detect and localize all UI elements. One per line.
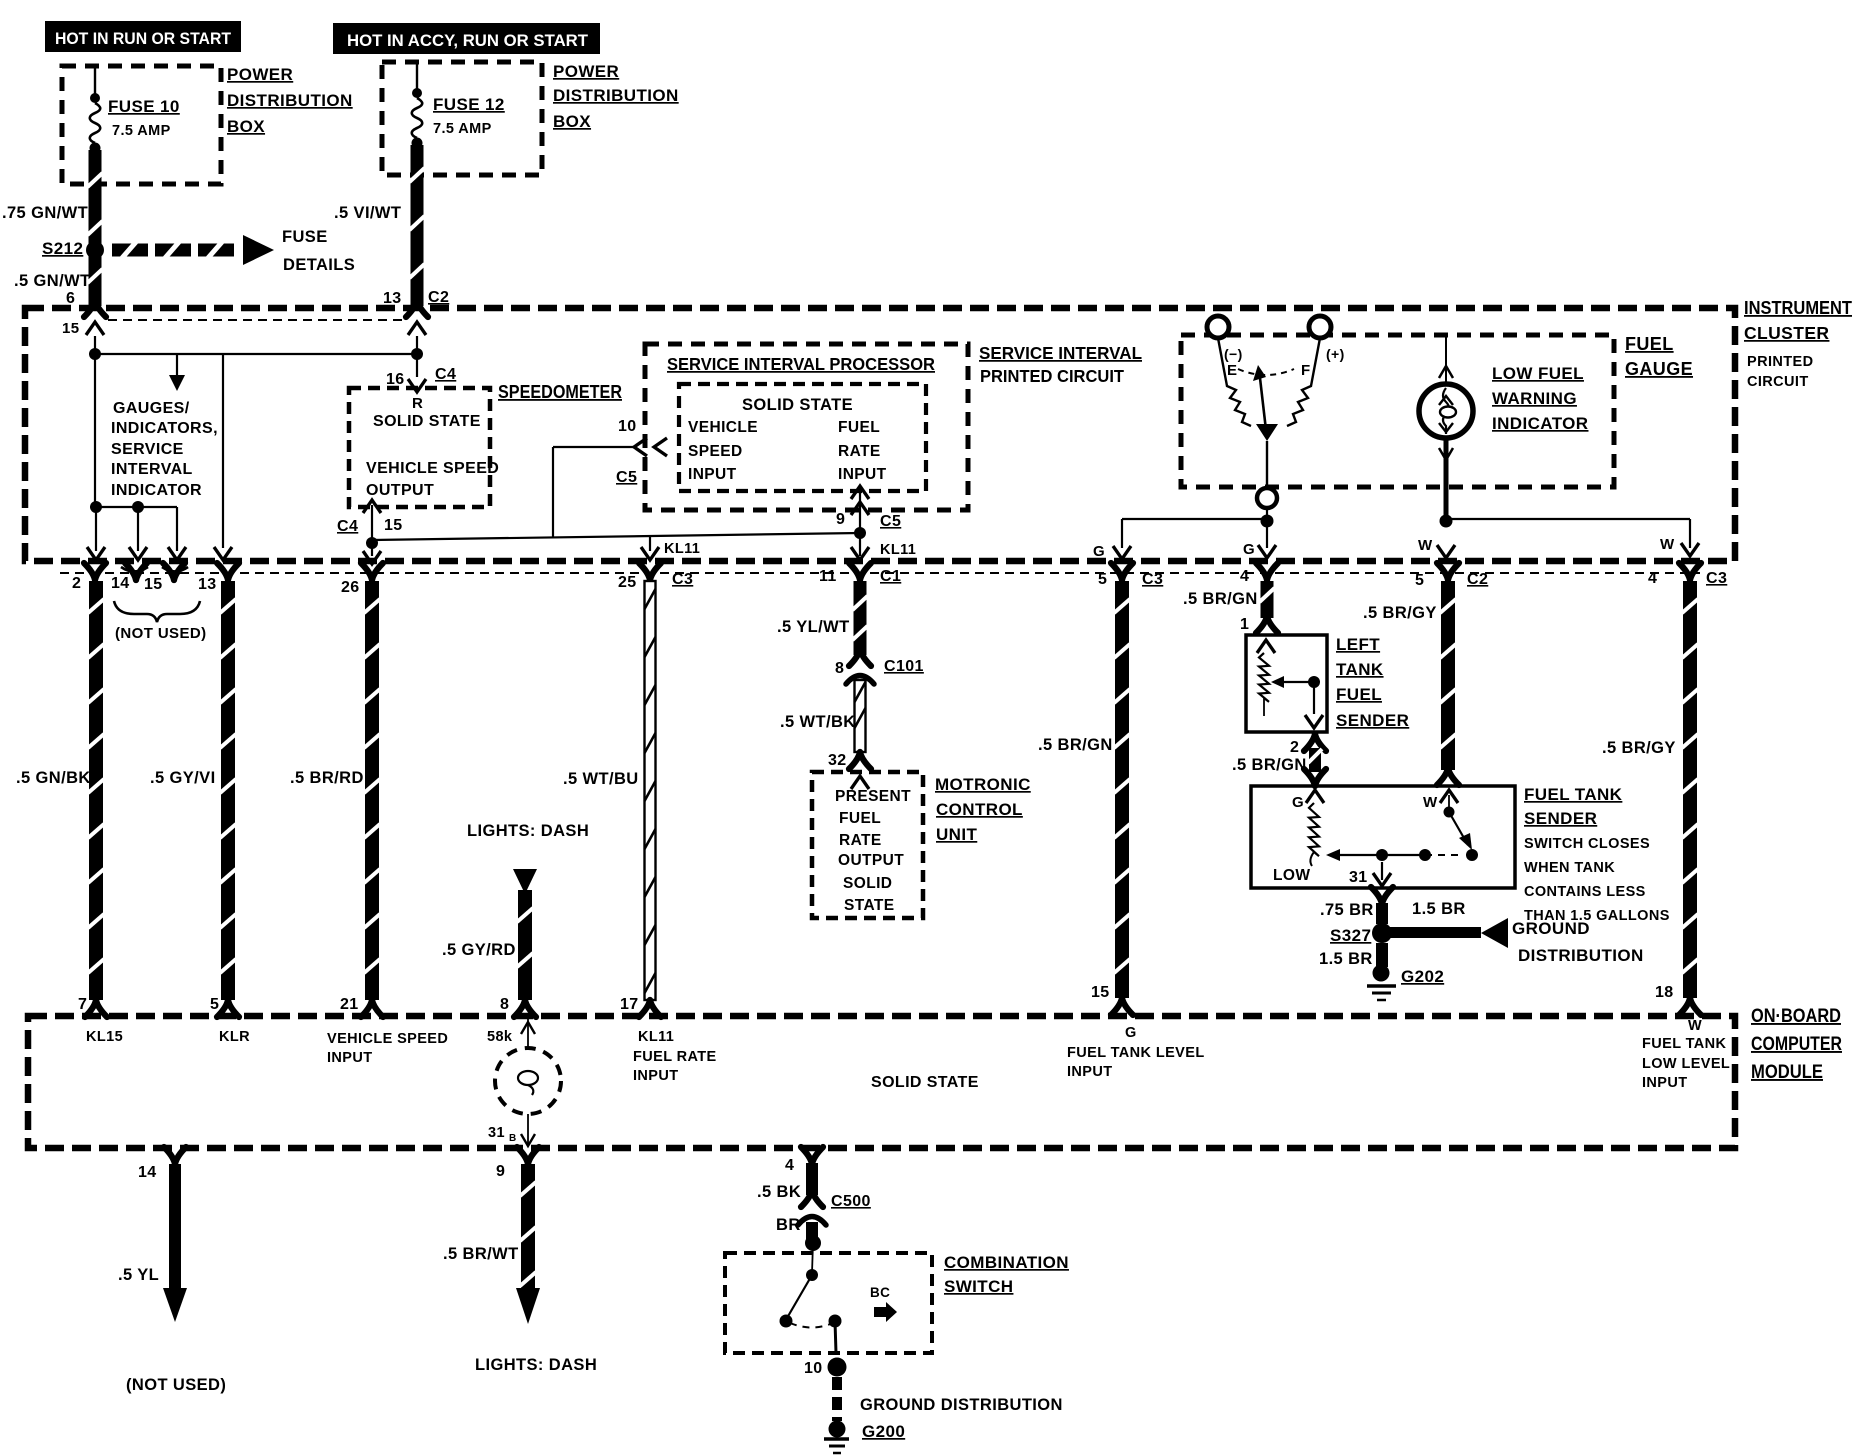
svg-text:25: 25	[618, 574, 637, 591]
svg-text:(+): (+)	[1326, 346, 1345, 362]
svg-text:FUSE 12: FUSE 12	[433, 95, 505, 114]
svg-text:.5 GN/WT: .5 GN/WT	[14, 272, 91, 290]
svg-text:SPEED: SPEED	[688, 443, 743, 460]
svg-text:S327: S327	[1330, 926, 1371, 945]
svg-text:C2: C2	[1467, 571, 1488, 588]
svg-text:2: 2	[1290, 739, 1299, 756]
svg-text:DISTRIBUTION: DISTRIBUTION	[227, 91, 353, 110]
svg-text:S212: S212	[42, 239, 83, 258]
svg-text:1: 1	[1240, 616, 1249, 633]
svg-text:4: 4	[1648, 570, 1657, 587]
svg-text:PRESENT: PRESENT	[835, 788, 911, 805]
svg-text:17: 17	[620, 996, 639, 1013]
svg-text:10: 10	[804, 1360, 823, 1377]
svg-text:9: 9	[836, 511, 845, 528]
svg-text:G: G	[1093, 543, 1105, 560]
svg-text:1.5 BR: 1.5 BR	[1319, 950, 1373, 968]
svg-text:C4: C4	[337, 518, 358, 535]
svg-text:TANK: TANK	[1336, 660, 1384, 679]
svg-text:15: 15	[384, 517, 403, 534]
svg-text:.75 BR: .75 BR	[1320, 901, 1374, 919]
svg-text:.5 YL/WT: .5 YL/WT	[777, 618, 850, 636]
svg-text:16: 16	[386, 371, 405, 388]
svg-text:.5 WT/BK: .5 WT/BK	[780, 713, 856, 731]
svg-text:KL11: KL11	[638, 1029, 674, 1045]
svg-text:KL11: KL11	[880, 542, 916, 558]
svg-text:13: 13	[198, 576, 217, 593]
svg-text:SERVICE INTERVAL: SERVICE INTERVAL	[979, 343, 1142, 363]
svg-text:C1: C1	[880, 568, 901, 585]
svg-text:DISTRIBUTION: DISTRIBUTION	[553, 86, 679, 105]
svg-text:LOW: LOW	[1273, 867, 1310, 884]
svg-text:MODULE: MODULE	[1751, 1062, 1823, 1083]
svg-text:C5: C5	[880, 513, 901, 530]
svg-text:LIGHTS: DASH: LIGHTS: DASH	[467, 822, 589, 840]
svg-text:F: F	[1301, 362, 1311, 379]
svg-text:.5 BR/GY: .5 BR/GY	[1602, 739, 1676, 757]
svg-text:INPUT: INPUT	[1642, 1075, 1688, 1091]
svg-text:VEHICLE SPEED: VEHICLE SPEED	[366, 460, 499, 477]
svg-text:21: 21	[340, 996, 359, 1013]
svg-text:9: 9	[496, 1163, 505, 1180]
svg-text:VEHICLE SPEED: VEHICLE SPEED	[327, 1031, 448, 1047]
svg-text:CLUSTER: CLUSTER	[1744, 323, 1829, 343]
svg-text:DISTRIBUTION: DISTRIBUTION	[1518, 946, 1644, 965]
svg-text:.5 BR/GN: .5 BR/GN	[1038, 736, 1113, 754]
svg-text:C101: C101	[884, 658, 924, 675]
svg-text:SOLID STATE: SOLID STATE	[871, 1074, 979, 1091]
svg-text:.5 BR/GY: .5 BR/GY	[1363, 604, 1437, 622]
svg-text:SERVICE: SERVICE	[111, 441, 184, 458]
svg-text:KL11: KL11	[664, 541, 700, 557]
svg-text:SWITCH CLOSES: SWITCH CLOSES	[1524, 836, 1650, 852]
svg-text:31: 31	[488, 1125, 505, 1141]
svg-text:.5 BK: .5 BK	[757, 1183, 801, 1201]
svg-text:LOW LEVEL: LOW LEVEL	[1642, 1056, 1730, 1072]
svg-text:FUEL: FUEL	[838, 419, 880, 436]
svg-text:G: G	[1125, 1025, 1137, 1041]
svg-text:GAUGE: GAUGE	[1625, 359, 1693, 379]
svg-text:.5 BR/RD: .5 BR/RD	[290, 769, 364, 787]
svg-text:FUSE: FUSE	[282, 228, 328, 246]
svg-text:FUEL: FUEL	[839, 810, 881, 827]
svg-text:INDICATORS,: INDICATORS,	[111, 420, 218, 437]
svg-text:G202: G202	[1401, 967, 1444, 986]
svg-text:FUEL: FUEL	[1625, 334, 1674, 354]
svg-text:PRINTED CIRCUIT: PRINTED CIRCUIT	[980, 366, 1124, 386]
svg-text:INPUT: INPUT	[327, 1050, 373, 1066]
svg-text:2: 2	[72, 575, 81, 592]
svg-text:SOLID: SOLID	[843, 875, 892, 892]
svg-text:GROUND: GROUND	[1512, 919, 1590, 938]
svg-text:SPEEDOMETER: SPEEDOMETER	[498, 382, 622, 402]
svg-text:INPUT: INPUT	[1067, 1064, 1113, 1080]
svg-text:RATE: RATE	[838, 443, 881, 460]
svg-text:FUSE 10: FUSE 10	[108, 97, 180, 116]
svg-text:INDICATOR: INDICATOR	[1492, 414, 1588, 433]
svg-text:(NOT USED): (NOT USED)	[126, 1376, 226, 1394]
svg-text:1.5 BR: 1.5 BR	[1412, 900, 1466, 918]
svg-text:C3: C3	[1706, 570, 1727, 587]
svg-text:5: 5	[1415, 572, 1424, 589]
svg-text:8: 8	[500, 996, 509, 1013]
svg-text:FUEL TANK: FUEL TANK	[1642, 1036, 1727, 1052]
svg-text:INSTRUMENT: INSTRUMENT	[1744, 298, 1852, 318]
svg-text:.5 YL: .5 YL	[118, 1266, 159, 1284]
svg-text:C3: C3	[672, 571, 693, 588]
svg-text:.5 GN/BK: .5 GN/BK	[16, 769, 91, 787]
svg-text:WHEN TANK: WHEN TANK	[1524, 860, 1615, 876]
svg-text:WARNING: WARNING	[1492, 389, 1577, 408]
svg-text:G: G	[1292, 794, 1304, 811]
svg-text:10: 10	[618, 418, 637, 435]
svg-text:INPUT: INPUT	[838, 466, 887, 483]
svg-text:R: R	[412, 395, 423, 412]
svg-text:.5 VI/WT: .5 VI/WT	[334, 204, 401, 222]
svg-text:LOW FUEL: LOW FUEL	[1492, 364, 1584, 383]
svg-text:15: 15	[144, 576, 163, 593]
svg-text:COMPUTER: COMPUTER	[1751, 1034, 1842, 1055]
svg-text:58k: 58k	[487, 1029, 513, 1045]
svg-text:KL15: KL15	[86, 1029, 123, 1045]
svg-text:SENDER: SENDER	[1336, 711, 1409, 730]
svg-text:SOLID STATE: SOLID STATE	[373, 413, 481, 430]
svg-text:C5: C5	[616, 469, 637, 486]
svg-text:15: 15	[1091, 984, 1110, 1001]
svg-text:FUEL: FUEL	[1336, 685, 1382, 704]
svg-text:SENDER: SENDER	[1524, 809, 1597, 828]
svg-text:LEFT: LEFT	[1336, 635, 1380, 654]
svg-text:.5 WT/BU: .5 WT/BU	[563, 770, 639, 788]
svg-text:E: E	[1227, 362, 1237, 379]
svg-text:DETAILS: DETAILS	[283, 256, 355, 274]
svg-text:18: 18	[1655, 984, 1674, 1001]
svg-text:VEHICLE: VEHICLE	[688, 419, 758, 436]
svg-text:POWER: POWER	[227, 65, 293, 84]
svg-text:CONTROL: CONTROL	[936, 800, 1023, 819]
svg-text:8: 8	[835, 660, 844, 677]
svg-text:OUTPUT: OUTPUT	[838, 852, 904, 869]
svg-text:31: 31	[1349, 869, 1368, 886]
svg-text:FUEL TANK: FUEL TANK	[1524, 785, 1623, 804]
svg-text:4: 4	[785, 1157, 794, 1174]
svg-text:HOT IN ACCY, RUN OR START: HOT IN ACCY, RUN OR START	[347, 31, 589, 50]
svg-text:11: 11	[819, 568, 837, 585]
svg-text:SOLID STATE: SOLID STATE	[742, 396, 853, 414]
svg-text:INDICATOR: INDICATOR	[111, 482, 202, 499]
svg-text:BR: BR	[776, 1216, 801, 1234]
svg-text:BOX: BOX	[553, 112, 591, 131]
svg-text:RATE: RATE	[839, 832, 882, 849]
svg-text:BOX: BOX	[227, 117, 265, 136]
svg-text:STATE: STATE	[844, 897, 895, 914]
svg-text:CIRCUIT: CIRCUIT	[1747, 374, 1809, 390]
svg-text:B: B	[509, 1133, 517, 1144]
svg-text:26: 26	[341, 579, 360, 596]
svg-text:7.5 AMP: 7.5 AMP	[433, 121, 492, 137]
svg-text:KLR: KLR	[219, 1029, 250, 1045]
svg-text:7.5 AMP: 7.5 AMP	[112, 123, 171, 139]
svg-text:CONTAINS LESS: CONTAINS LESS	[1524, 884, 1646, 900]
svg-text:.5 BR/WT: .5 BR/WT	[443, 1245, 519, 1263]
svg-text:POWER: POWER	[553, 62, 619, 81]
svg-text:W: W	[1423, 794, 1438, 811]
svg-text:G200: G200	[862, 1422, 905, 1441]
svg-text:C500: C500	[831, 1193, 871, 1210]
svg-text:(NOT USED): (NOT USED)	[115, 625, 207, 642]
svg-text:INPUT: INPUT	[688, 466, 737, 483]
svg-text:4: 4	[1240, 568, 1249, 585]
svg-text:UNIT: UNIT	[936, 825, 977, 844]
svg-text:5: 5	[1098, 571, 1107, 588]
svg-text:GAUGES/: GAUGES/	[113, 400, 190, 417]
svg-text:SWITCH: SWITCH	[944, 1277, 1013, 1296]
svg-text:BC: BC	[870, 1285, 890, 1300]
svg-text:INTERVAL: INTERVAL	[111, 461, 193, 478]
svg-text:.5 BR/GN: .5 BR/GN	[1232, 756, 1307, 774]
svg-text:W: W	[1660, 536, 1675, 553]
svg-text:FUEL RATE: FUEL RATE	[633, 1049, 717, 1065]
svg-text:HOT IN RUN OR START: HOT IN RUN OR START	[55, 29, 232, 48]
svg-text:PRINTED: PRINTED	[1747, 354, 1813, 370]
svg-text:.5 BR/GN: .5 BR/GN	[1183, 590, 1258, 608]
svg-text:C4: C4	[435, 366, 456, 383]
svg-text:LIGHTS: DASH: LIGHTS: DASH	[475, 1356, 597, 1374]
svg-text:OUTPUT: OUTPUT	[366, 482, 434, 499]
svg-text:7: 7	[78, 996, 87, 1013]
svg-text:15: 15	[62, 320, 80, 337]
svg-text:G: G	[1243, 541, 1255, 558]
svg-text:(−): (−)	[1224, 346, 1243, 362]
svg-text:ON·BOARD: ON·BOARD	[1751, 1006, 1841, 1027]
svg-text:W: W	[1688, 1018, 1702, 1034]
svg-text:6: 6	[66, 290, 75, 307]
svg-text:FUEL TANK LEVEL: FUEL TANK LEVEL	[1067, 1045, 1205, 1061]
svg-text:C2: C2	[428, 289, 449, 306]
svg-text:32: 32	[828, 752, 847, 769]
svg-text:.75 GN/WT: .75 GN/WT	[2, 204, 88, 222]
svg-text:INPUT: INPUT	[633, 1068, 679, 1084]
svg-text:.5 GY/VI: .5 GY/VI	[150, 769, 216, 787]
svg-text:14: 14	[138, 1164, 157, 1181]
svg-text:COMBINATION: COMBINATION	[944, 1253, 1069, 1272]
svg-text:W: W	[1418, 537, 1433, 554]
svg-text:MOTRONIC: MOTRONIC	[935, 775, 1031, 794]
svg-text:C3: C3	[1142, 571, 1163, 588]
svg-text:SERVICE INTERVAL PROCESSOR: SERVICE INTERVAL PROCESSOR	[667, 354, 935, 374]
svg-text:.5 GY/RD: .5 GY/RD	[442, 941, 516, 959]
svg-text:GROUND DISTRIBUTION: GROUND DISTRIBUTION	[860, 1396, 1063, 1414]
svg-text:14: 14	[111, 575, 130, 592]
svg-text:5: 5	[210, 996, 219, 1013]
svg-text:13: 13	[383, 290, 402, 307]
